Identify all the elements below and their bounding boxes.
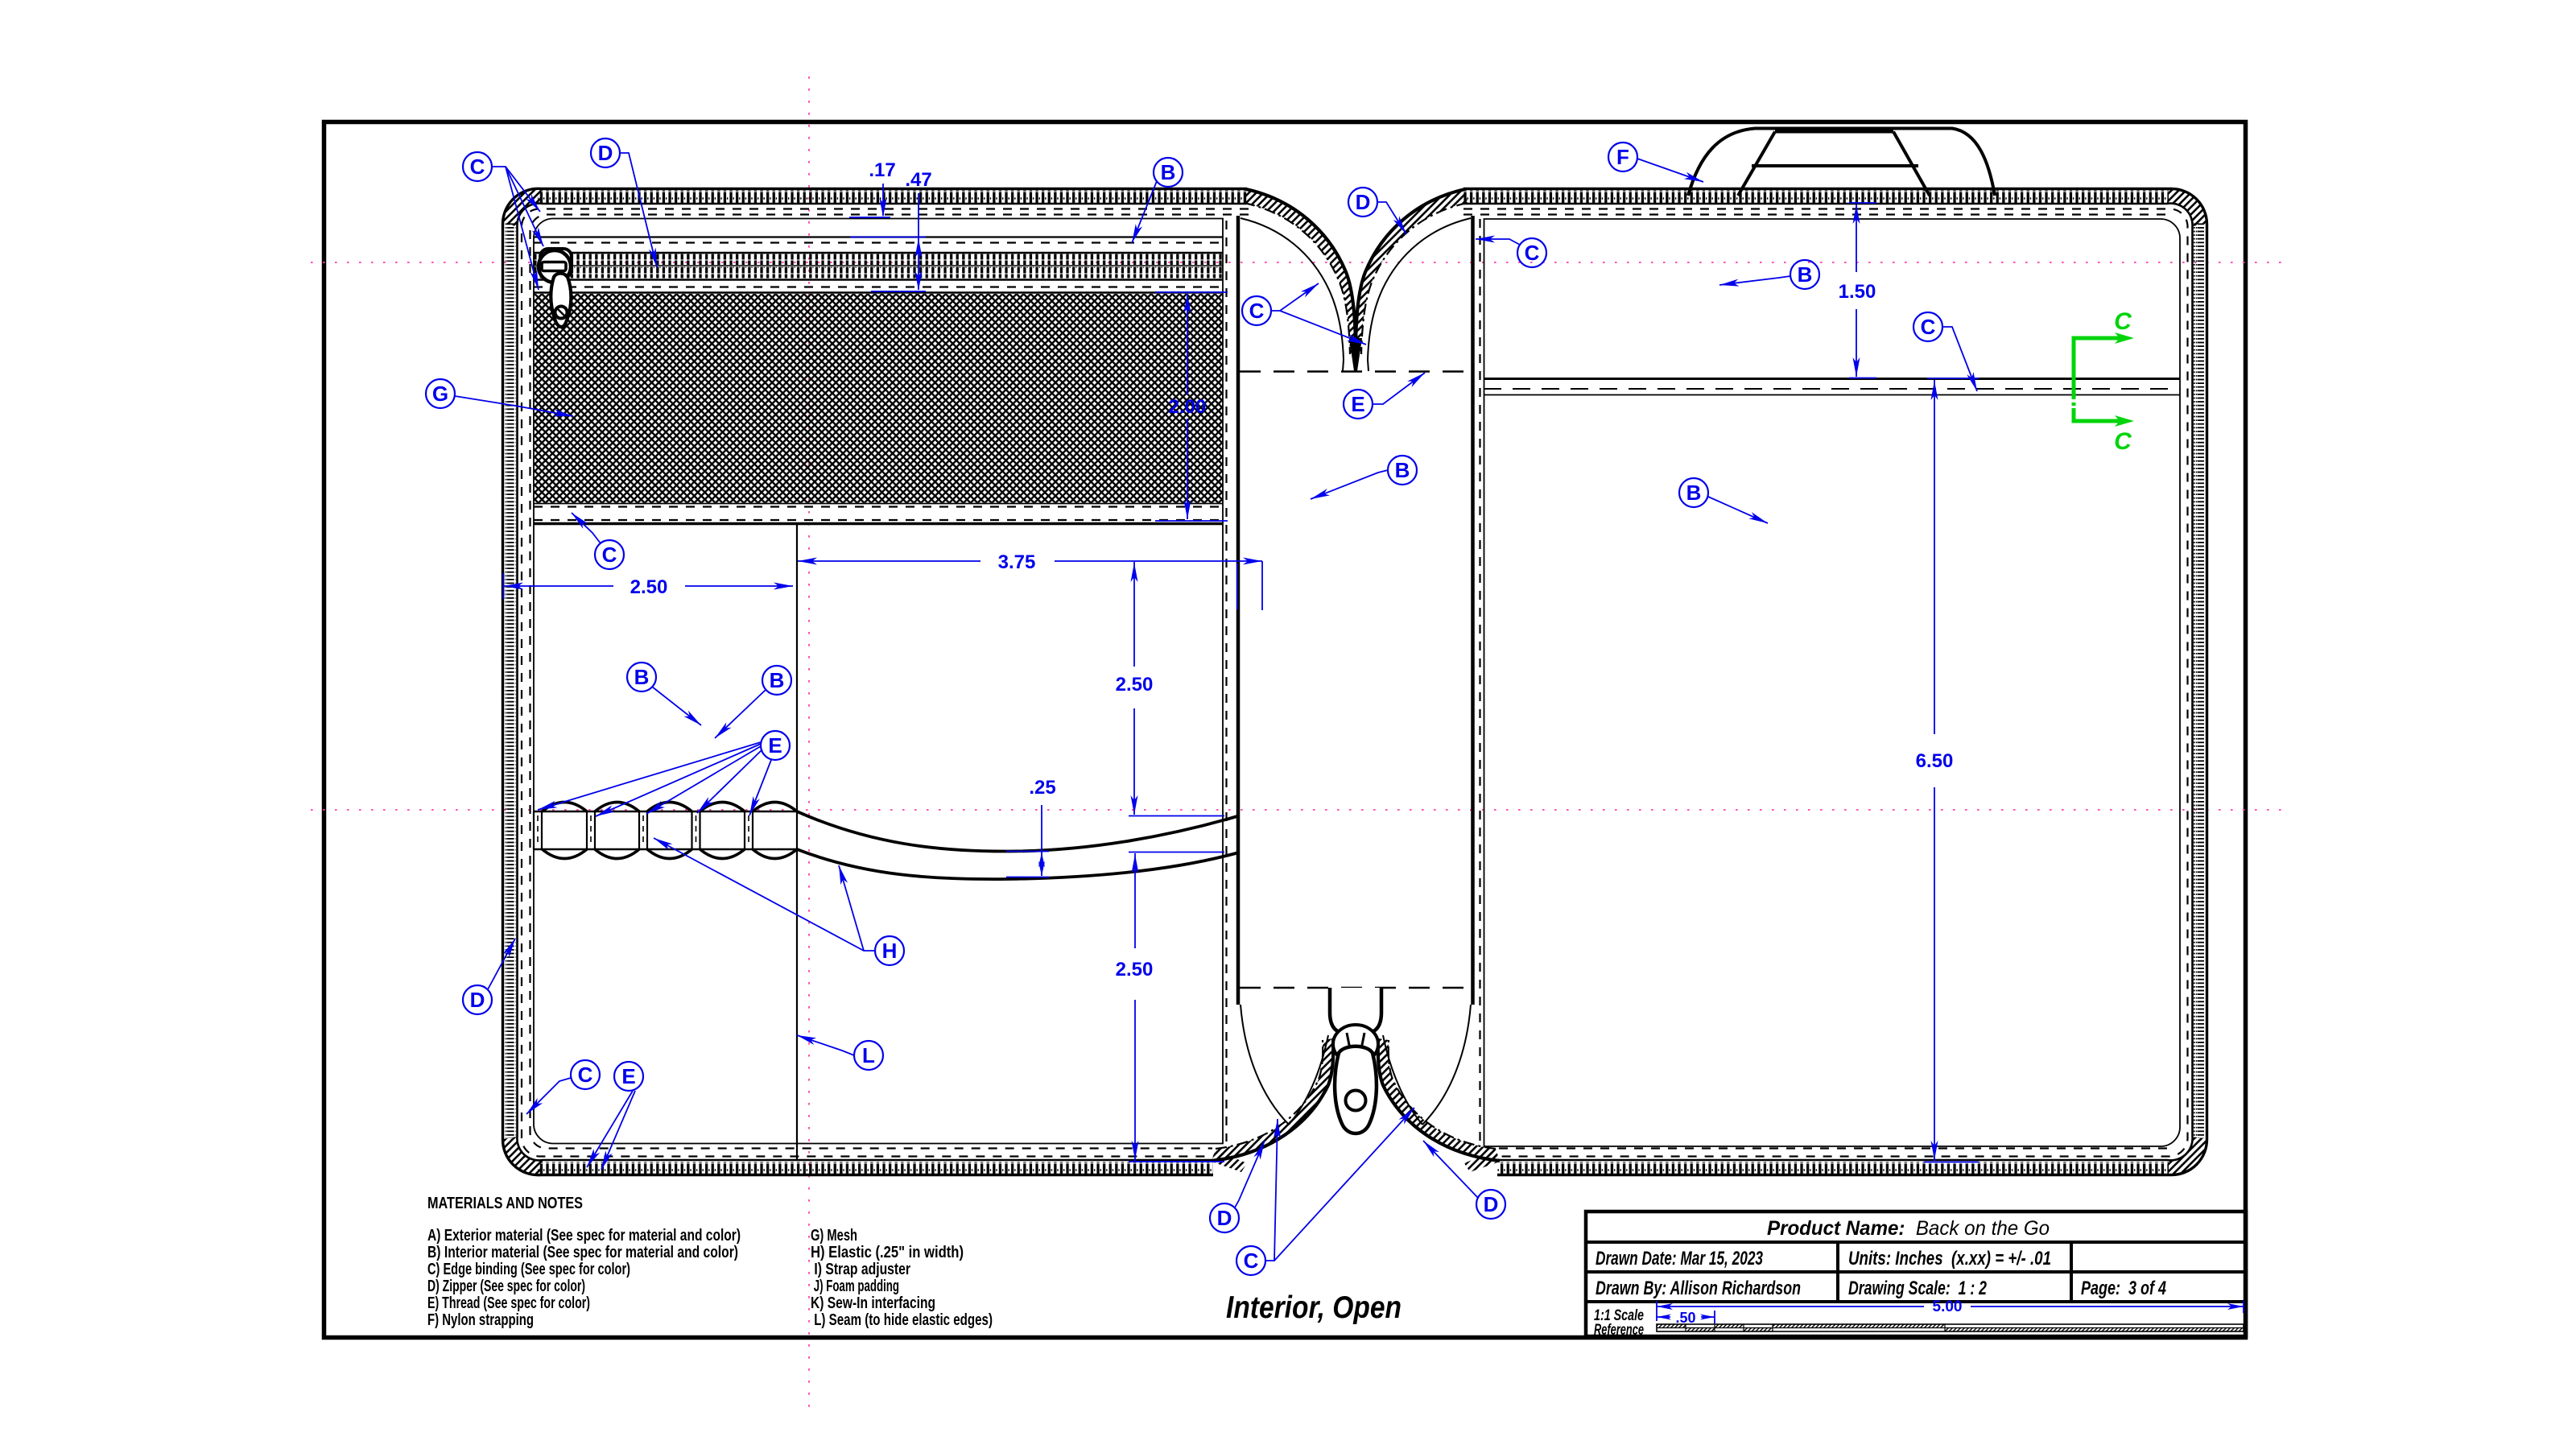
callout E bottom-left thread <box>587 1062 643 1170</box>
elastic loop 4 bottom bulge <box>700 849 745 859</box>
right panel pocket stitch dashed <box>1484 388 2180 390</box>
svg-text:B: B <box>634 665 650 689</box>
bottom right wing band wedge into teeth band <box>1464 1150 1500 1172</box>
dimension 1.50 right panel <box>1849 203 1876 378</box>
thread E dashed line bottom middle <box>1240 987 1473 989</box>
dimension .47 <box>850 193 926 291</box>
dimension .17 <box>849 184 890 217</box>
right panel pocket top seam line <box>1484 378 2180 380</box>
bottom right wing hatch band <box>1378 1038 1500 1161</box>
section C-C marker <box>2074 338 2120 421</box>
zipper D teeth lower row <box>534 267 1223 279</box>
svg-text:D: D <box>1356 190 1371 214</box>
callout D top zipper <box>591 138 657 267</box>
elastic loop 5 top bulge <box>753 803 797 812</box>
centerline vertical left panel <box>808 76 810 1409</box>
bottom right wing outer thick curve <box>1378 1038 1500 1161</box>
bottom zipper pull tab teardrop <box>1335 1046 1377 1133</box>
right panel inner lining wall <box>1484 219 2181 1146</box>
callout C top-left edge binding <box>463 152 543 290</box>
svg-text:.47: .47 <box>905 169 931 191</box>
svg-text:K) Sew-In interfacing: K) Sew-In interfacing <box>811 1294 935 1312</box>
callout B pocket left <box>627 663 701 725</box>
bottom left wing dash-dot boundary <box>1216 1040 1323 1149</box>
handle F grip mid line <box>1752 164 1918 167</box>
elastic loop bar 2 <box>586 811 588 849</box>
left panel flap stitch dashed <box>534 242 1223 243</box>
svg-text:.25: .25 <box>1029 777 1055 799</box>
left panel stitch dashed outer ring <box>522 208 1249 1156</box>
svg-text:F) Nylon strapping: F) Nylon strapping <box>427 1311 534 1329</box>
svg-text:B: B <box>1395 458 1410 482</box>
left panel outer edge <box>502 188 1247 1174</box>
scale reference dimension .50 <box>1657 1311 1715 1323</box>
dimension 2.00 mesh height <box>1155 292 1228 521</box>
dimension 6.50 right panel <box>1924 378 1979 1162</box>
svg-text:H) Elastic (.25" in width): H) Elastic (.25" in width) <box>811 1244 964 1261</box>
left panel right spine wall thick <box>1236 216 1241 1005</box>
handle F grip trapezoid left slant <box>1738 132 1775 196</box>
svg-text:B: B <box>1798 262 1813 287</box>
elastic loop 3 top bulge <box>647 803 692 812</box>
bottom right wing thin curve from wall <box>1422 1005 1471 1125</box>
elastic loop 2 top bulge <box>595 803 639 812</box>
svg-text:L) Seam (to hide elastic edges: L) Seam (to hide elastic edges) <box>811 1311 993 1329</box>
sheet border frame <box>324 122 2246 1338</box>
mesh pocket G bottom edge <box>534 503 1223 505</box>
svg-text:6.50: 6.50 <box>1916 750 1954 772</box>
svg-text:I) Strap adjuster: I) Strap adjuster <box>811 1261 910 1278</box>
svg-text:D: D <box>470 988 485 1012</box>
handle F grip trapezoid right slant <box>1893 132 1930 196</box>
elastic strap H upper curve <box>797 811 1237 852</box>
right panel corner fan hatch top-right <box>2167 188 2207 226</box>
left panel edge binding teeth band bottom <box>538 1162 1213 1174</box>
top right wing outer curve <box>1356 189 1465 353</box>
svg-text:.50: .50 <box>1675 1310 1695 1326</box>
svg-text:C: C <box>2114 308 2132 335</box>
right panel binding band right <box>2193 222 2204 1138</box>
callout C bottom middle binding <box>1236 1108 1414 1275</box>
top left wing outer curve <box>1246 189 1356 353</box>
left panel flap seam line <box>534 236 1223 237</box>
elastic loop 1 bottom bulge <box>543 849 588 859</box>
zipper pull tab hole <box>555 307 568 319</box>
svg-text:Drawn Date: Mar 15, 2023: Drawn Date: Mar 15, 2023 <box>1596 1248 1763 1269</box>
right panel band inner solid line <box>1463 204 2193 1161</box>
svg-text:2.00: 2.00 <box>1169 396 1207 418</box>
svg-text:2.50: 2.50 <box>1116 959 1154 980</box>
left panel corner fan hatch bottom-left <box>502 1137 543 1175</box>
svg-text:Page: 3 of 4: Page: 3 of 4 <box>2081 1278 2166 1299</box>
right panel stitch dashed inner ring top <box>1463 213 2173 215</box>
svg-text:1.50: 1.50 <box>1839 281 1876 303</box>
callout L seam divider <box>797 1035 883 1070</box>
zipper slider bridge bar <box>542 262 566 271</box>
callout B pocket right <box>715 666 791 738</box>
callout D left zipper edge <box>463 939 515 1014</box>
bottom right wing dash-dot boundary <box>1389 1040 1496 1149</box>
svg-text:Drawing Scale: 1 : 2: Drawing Scale: 1 : 2 <box>1848 1278 1987 1299</box>
svg-text:D) Zipper (See spec for color): D) Zipper (See spec for color) <box>427 1278 585 1295</box>
zipper slider pull ring <box>539 250 571 283</box>
left panel edge binding band left <box>505 222 516 1138</box>
elastic loop 3 bottom bulge <box>647 849 692 859</box>
elastic loop bar 5 <box>744 811 745 849</box>
svg-text:B: B <box>1686 481 1702 505</box>
svg-text:MATERIALS AND NOTES: MATERIALS AND NOTES <box>427 1195 583 1212</box>
svg-text:C: C <box>2114 428 2132 455</box>
centerline horizontal top <box>311 262 2286 263</box>
left panel band inner solid line <box>517 204 1247 1161</box>
elastic loop 2 bottom bulge <box>595 849 639 859</box>
svg-text:3.75: 3.75 <box>998 551 1036 573</box>
top left wing dash-dot inner boundary <box>1244 203 1350 354</box>
right panel outer edge <box>1463 188 2207 1174</box>
materials notes column 2 <box>811 1227 993 1329</box>
svg-text:E) Thread (See spec for color): E) Thread (See spec for color) <box>427 1294 590 1312</box>
callout B top interior <box>1132 158 1183 243</box>
elastic loop bar 4 <box>691 811 692 849</box>
bottom zipper slider body <box>1330 988 1381 1034</box>
thread E dashed line top middle <box>1240 370 1473 373</box>
svg-text:L: L <box>862 1043 875 1067</box>
elastic loop row bottom line <box>534 848 797 851</box>
elastic loop bar 3 <box>638 811 640 849</box>
callout C top middle binding <box>1242 283 1366 345</box>
zipper D teeth upper row <box>534 254 1223 266</box>
left panel edge binding teeth band top (C/D zipper tape) <box>538 191 1247 204</box>
svg-text:C: C <box>602 543 617 567</box>
svg-text:Reference: Reference <box>1594 1322 1644 1339</box>
svg-text:B) Interior material (See spec: B) Interior material (See spec for mater… <box>427 1244 738 1261</box>
callout B middle interior <box>1311 456 1417 499</box>
stitch dashed under zipper <box>534 286 1223 287</box>
scale reference bar <box>1657 1324 2244 1331</box>
svg-text:C: C <box>1244 1249 1259 1273</box>
svg-text:B: B <box>1161 160 1176 184</box>
elastic loop 5 bottom bulge <box>753 849 797 859</box>
mesh pocket G crosshatch fill <box>535 294 1223 503</box>
left panel right wall dashed stitch <box>1225 221 1227 1141</box>
mesh pocket G top edge <box>534 291 1223 293</box>
svg-text:2.50: 2.50 <box>630 576 668 598</box>
callout C below mesh <box>572 513 624 569</box>
handle F grip top edge <box>1775 130 1893 134</box>
title block frame <box>1586 1212 2246 1336</box>
elastic loop 4 top bulge <box>700 803 745 812</box>
svg-text:.17: .17 <box>869 159 895 181</box>
dimension 2.50 upper vertical <box>1129 562 1224 816</box>
callout C right panel top corner <box>1476 236 1546 268</box>
dimension .25 elastic width <box>1006 805 1049 877</box>
zipper pull tab teardrop <box>551 274 571 328</box>
right panel corner fan hatch bottom-right <box>2167 1137 2207 1175</box>
svg-text:C: C <box>1525 241 1540 265</box>
svg-text:C: C <box>470 155 485 179</box>
bottom zipper slider opening <box>1333 1025 1378 1063</box>
right panel stitch dashed inner ring bottom <box>1499 1147 2173 1149</box>
svg-text:F: F <box>1616 145 1629 169</box>
zipper slider body top-left <box>540 249 572 278</box>
right panel stitch dashed outer ring <box>1463 208 2188 1156</box>
svg-text:J) Foam padding: J) Foam padding <box>811 1278 899 1295</box>
callout B right panel upper <box>1719 260 1819 289</box>
materials notes column 1 <box>427 1227 741 1329</box>
svg-text:A) Exterior material (See spec: A) Exterior material (See spec for mater… <box>427 1227 741 1245</box>
svg-text:Drawn By: Allison Richardson: Drawn By: Allison Richardson <box>1596 1278 1801 1299</box>
dimension 3.75 <box>798 561 1262 610</box>
left panel corner fan hatch top-left <box>503 188 543 226</box>
callout B right panel lower <box>1679 478 1768 523</box>
right panel teeth band bottom <box>1497 1162 2169 1174</box>
svg-text:E: E <box>768 733 782 758</box>
bottom zipper pull tab hole <box>1346 1091 1366 1111</box>
svg-text:5.00: 5.00 <box>1933 1298 1963 1315</box>
zipper D middle line <box>534 265 1223 266</box>
svg-text:C: C <box>1921 315 1936 339</box>
top right wing dash-dot inner boundary <box>1361 203 1468 354</box>
svg-text:G) Mesh: G) Mesh <box>811 1227 857 1245</box>
dimension 2.50 horizontal pocket <box>504 573 794 599</box>
svg-text:C: C <box>578 1063 593 1087</box>
svg-text:Product Name: Back on the Go: Product Name: Back on the Go <box>1767 1217 2050 1240</box>
elastic strap H lower curve <box>797 849 1237 879</box>
bottom left wing outer thick curve <box>1212 1038 1333 1161</box>
callout H elastic <box>654 838 904 965</box>
zipper D tape band bottom edge <box>534 279 1223 281</box>
left panel inner lining wall <box>534 219 1223 1144</box>
top right wing inner thin curve <box>1368 218 1471 360</box>
callout G mesh <box>426 379 573 416</box>
svg-text:E: E <box>621 1064 635 1088</box>
stitch dashed below mesh 1 <box>534 506 1223 507</box>
callout E thread loops <box>538 731 790 816</box>
svg-text:2.50: 2.50 <box>1116 674 1154 696</box>
left panel stitch dashed inner ring <box>530 214 1249 1148</box>
bottom left wing thin curve from wall <box>1241 1005 1289 1125</box>
svg-text:C) Edge binding (See spec for: C) Edge binding (See spec for color) <box>427 1261 630 1278</box>
zipper D tape band top edge <box>534 252 1223 254</box>
bottom right wing thin curve to slider <box>1383 1035 1422 1125</box>
callout E middle thread <box>1344 373 1425 419</box>
callout F handle strap <box>1608 142 1703 182</box>
right panel left spine wall thick <box>1471 216 1475 1005</box>
pocket divider seam L <box>796 524 798 1159</box>
callout C bottom-left binding <box>526 1060 600 1114</box>
elastic loop row top line <box>534 811 797 813</box>
svg-text:D: D <box>1217 1206 1232 1230</box>
elastic loop bar 1 <box>533 811 535 849</box>
svg-text:C: C <box>1249 299 1265 323</box>
svg-text:D: D <box>1484 1192 1499 1216</box>
top left wing hatch band <box>1244 189 1356 354</box>
svg-text:G: G <box>432 382 448 406</box>
svg-text:B: B <box>770 668 785 692</box>
svg-text:Units: Inches (x.xx) = +/- .0: Units: Inches (x.xx) = +/- .01 <box>1848 1248 2051 1269</box>
scale reference dimension 5.00 <box>1657 1301 2244 1321</box>
bottom left wing band wedge into teeth band <box>1212 1150 1247 1172</box>
svg-text:E: E <box>1351 392 1364 416</box>
callout D top middle zipper <box>1348 188 1406 234</box>
callout C right panel pocket <box>1913 312 1977 391</box>
pocket top seam line C <box>534 522 1223 525</box>
svg-text:D: D <box>598 141 613 165</box>
dimension 2.50 lower vertical <box>1129 852 1224 1162</box>
svg-text:Interior, Open: Interior, Open <box>1226 1290 1402 1325</box>
bottom left wing thin curve to slider <box>1289 1035 1328 1125</box>
callout D bottom right zipper <box>1423 1141 1505 1219</box>
top V tip converging <box>1349 338 1362 371</box>
top right wing hatch band <box>1356 189 1468 354</box>
centerline horizontal bottom <box>311 809 2286 811</box>
svg-text:H: H <box>882 939 898 963</box>
bottom left wing hatch band <box>1212 1038 1333 1161</box>
elastic loop 1 top bulge <box>543 803 588 812</box>
right panel teeth band top <box>1463 191 2169 204</box>
callout D bottom left zipper <box>1210 1141 1265 1232</box>
top left wing inner thin curve <box>1241 218 1344 360</box>
right panel left wall dashed stitch <box>1479 219 1480 1143</box>
nylon strap handle F outer profile <box>1688 129 1995 196</box>
right panel pocket bottom thin line <box>1484 394 2180 396</box>
stitch dashed below mesh 2 <box>534 519 1223 521</box>
